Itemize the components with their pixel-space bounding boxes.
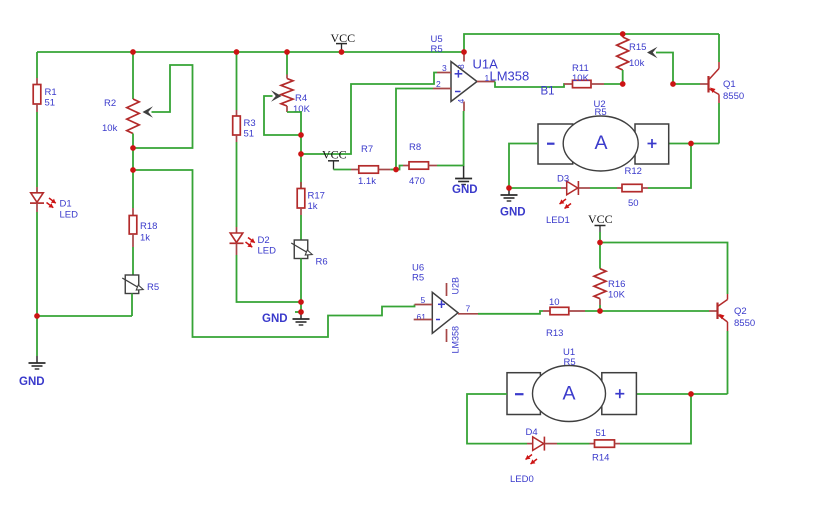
label R1 ref bbox=[45, 87, 57, 98]
wire Q1 collector bbox=[718, 103, 720, 144]
op-amp U2B pin6 stub bbox=[414, 319, 433, 321]
op-amp U1A bbox=[451, 62, 477, 102]
resistor R3 bbox=[233, 110, 241, 142]
label R16 value 10K bbox=[608, 290, 626, 301]
junction node rail-R4 bbox=[284, 49, 290, 55]
wire R2 bottom bbox=[132, 134, 134, 149]
label U2 plus bbox=[648, 139, 657, 148]
wire D1 to GND junction bbox=[36, 212, 38, 316]
ammeter U2 terminals bbox=[538, 124, 669, 164]
svg-text:10k: 10k bbox=[102, 123, 118, 134]
wire rail to R4 bbox=[286, 52, 288, 79]
label U6 bbox=[412, 263, 424, 274]
svg-text:VCC: VCC bbox=[322, 148, 347, 162]
wire VCC to R16 junction bbox=[599, 232, 601, 243]
svg-text:61: 61 bbox=[417, 312, 427, 322]
op-amp U2B pin5 stub bbox=[415, 304, 433, 306]
label D1 value LED bbox=[60, 210, 79, 221]
svg-text:50: 50 bbox=[628, 198, 639, 209]
resistor R11 bbox=[564, 80, 604, 87]
svg-text:Q2: Q2 bbox=[734, 306, 747, 317]
svg-text:R4: R4 bbox=[295, 93, 307, 104]
ground symbol opamp bbox=[455, 166, 472, 185]
wire R2 bottom to lower junction bbox=[132, 148, 134, 170]
svg-text:R8: R8 bbox=[409, 142, 421, 153]
label R15 value 10k bbox=[629, 58, 645, 69]
wire junction to right drop bbox=[133, 170, 415, 337]
wire junction to R17 bbox=[300, 154, 302, 188]
svg-text:1k: 1k bbox=[308, 201, 318, 212]
svg-text:3: 3 bbox=[442, 63, 447, 73]
transistor Q2 bbox=[709, 294, 728, 331]
R4 wiper arrow bbox=[271, 90, 282, 102]
label D3 ref bbox=[557, 174, 569, 185]
svg-text:D4: D4 bbox=[526, 427, 538, 438]
wire gnd to D3 bbox=[509, 187, 561, 189]
label R4 ref bbox=[295, 93, 307, 104]
label R5 ref left bbox=[147, 282, 159, 293]
wire D2 to mid ground bbox=[237, 255, 302, 302]
junction node VCC-R16 bbox=[597, 240, 603, 246]
wire R18 column bbox=[132, 170, 134, 208]
wire opamp output B1 bbox=[495, 82, 565, 88]
label R14 value 51 bbox=[596, 428, 607, 439]
label pin 61 bbox=[417, 312, 427, 322]
LED D1 arrows bbox=[47, 198, 56, 208]
trimmer R6 bbox=[291, 240, 312, 259]
svg-text:R7: R7 bbox=[361, 144, 373, 155]
label LM358 rotated bbox=[451, 326, 461, 354]
wire mid ground segment bbox=[300, 302, 302, 312]
junction node R16-R13 bbox=[597, 308, 603, 314]
label R18 value 1k bbox=[140, 233, 150, 244]
svg-text:B1: B1 bbox=[541, 86, 555, 98]
label U2B rotated bbox=[451, 277, 461, 295]
label R7 value 1.1k bbox=[358, 176, 376, 187]
wire R1 to D1 bbox=[36, 112, 38, 187]
label net B1 bbox=[541, 86, 555, 98]
svg-text:D3: D3 bbox=[557, 174, 569, 185]
label Q2 ref bbox=[734, 306, 747, 317]
wire R14 to plus node bbox=[620, 394, 691, 444]
wire Q1 emitter bbox=[718, 34, 720, 62]
label R8 value 470 bbox=[409, 176, 425, 187]
junction node R2 bottom bbox=[130, 145, 136, 151]
junction node mid-ground upper bbox=[298, 299, 304, 305]
junction node D1-R5 bottom bbox=[34, 313, 40, 319]
resistor R17 bbox=[297, 182, 305, 215]
wire Q2 collector bbox=[727, 331, 729, 394]
wire rail up to top-right rail bbox=[464, 34, 719, 52]
svg-text:4: 4 bbox=[456, 99, 466, 104]
svg-text:R2: R2 bbox=[104, 98, 116, 109]
label LM358 U1A bbox=[490, 69, 530, 84]
resistor R12 bbox=[617, 184, 648, 191]
label GND left bbox=[19, 376, 45, 388]
power symbol VCC top bbox=[336, 44, 347, 52]
wire D4 to R14 bbox=[557, 443, 590, 445]
junction node opamp pin8 bbox=[461, 49, 467, 55]
label D2 ref bbox=[258, 235, 270, 246]
label R11 value 10K bbox=[572, 73, 590, 84]
svg-text:LM358: LM358 bbox=[451, 326, 461, 354]
svg-text:LED: LED bbox=[258, 246, 277, 257]
svg-text:R5: R5 bbox=[412, 273, 424, 284]
label R5 of U6 bbox=[412, 273, 424, 284]
wire U1 minus loop bbox=[467, 394, 527, 444]
label pin 7 bbox=[466, 304, 471, 314]
label R18 ref bbox=[140, 221, 157, 232]
svg-text:A: A bbox=[562, 383, 575, 405]
svg-text:10: 10 bbox=[549, 297, 560, 308]
op-amp U2B pin8 stub bbox=[446, 283, 448, 296]
label U1 A bbox=[562, 383, 575, 405]
power symbol VCC mid-left bbox=[328, 161, 339, 170]
label Q1 value 8550 bbox=[723, 91, 744, 102]
svg-text:8550: 8550 bbox=[734, 318, 755, 329]
label U1A bbox=[473, 57, 499, 72]
label GND meter bbox=[500, 207, 526, 219]
label U2 A bbox=[594, 132, 607, 154]
wire R8 to gnd corner bbox=[437, 111, 464, 166]
LED D4 arrows bbox=[526, 455, 538, 465]
label R6 ref bbox=[316, 257, 328, 268]
wire opamp inverting bbox=[396, 89, 433, 170]
svg-text:R17: R17 bbox=[308, 191, 325, 202]
label pin 2 bbox=[436, 79, 441, 89]
label R15 ref bbox=[629, 42, 646, 53]
svg-text:51: 51 bbox=[596, 428, 607, 439]
label Q1 ref bbox=[723, 79, 736, 90]
potentiometer R15 bbox=[617, 37, 629, 70]
junction node R4 bottom bbox=[298, 132, 304, 138]
ammeter U1 body bbox=[533, 366, 606, 422]
label R4 value 10K bbox=[293, 104, 311, 115]
wire Q2 to ammeter U1 plus bbox=[636, 393, 727, 395]
resistor R1 bbox=[33, 78, 41, 112]
svg-text:R5: R5 bbox=[564, 357, 576, 368]
wire R15 top bbox=[622, 34, 624, 37]
wire pin7 to R13 bbox=[478, 311, 543, 314]
R2 wiper arrow bbox=[143, 106, 154, 118]
junction node R18 top bbox=[130, 167, 136, 173]
label R14 ref bbox=[592, 453, 609, 464]
label D4 value LED0 bbox=[510, 474, 534, 485]
wire mid ground stub bbox=[295, 311, 301, 313]
wire top VCC rail bbox=[37, 51, 464, 53]
label R16 ref bbox=[608, 279, 625, 290]
svg-text:GND: GND bbox=[452, 184, 478, 196]
label VCC top bbox=[331, 31, 356, 45]
wire R15 wiper loop bbox=[656, 53, 673, 85]
wire R15 bottom bbox=[622, 70, 624, 84]
svg-text:R14: R14 bbox=[592, 453, 609, 464]
resistor R8 bbox=[403, 162, 437, 169]
ammeter U2 body bbox=[563, 116, 638, 171]
wire R5 to bottom rail bbox=[131, 294, 133, 317]
svg-text:LED: LED bbox=[60, 210, 79, 221]
wire R2 wiper loop bbox=[133, 65, 193, 148]
svg-text:10k: 10k bbox=[629, 58, 645, 69]
wire D3 to R12 bbox=[590, 187, 617, 189]
LED D2 bbox=[230, 227, 244, 255]
svg-text:R18: R18 bbox=[140, 221, 157, 232]
op-amp U1A pin 3 stub bbox=[437, 72, 451, 74]
label pin 8 bbox=[456, 64, 466, 69]
label R3 ref bbox=[244, 118, 256, 129]
junction node R15 wiper bbox=[670, 81, 676, 87]
label D1 ref bbox=[60, 199, 72, 210]
wire bottom-left horizontal bbox=[37, 315, 132, 317]
svg-text:5: 5 bbox=[421, 295, 426, 305]
op-amp U2B pin7 stub bbox=[458, 313, 478, 315]
junction node opamp+ tap bbox=[298, 151, 304, 157]
svg-text:7: 7 bbox=[466, 304, 471, 314]
label U2 R5 bbox=[595, 107, 607, 118]
svg-text:GND: GND bbox=[262, 313, 288, 325]
label D2 value LED bbox=[258, 246, 277, 257]
wire Q1 to ammeter plus bbox=[669, 143, 719, 145]
LED D3 bbox=[561, 181, 590, 195]
junction node ammeter plus bbox=[688, 141, 694, 147]
svg-text:GND: GND bbox=[500, 207, 526, 219]
wire to Q1 base bbox=[673, 83, 700, 85]
svg-text:GND: GND bbox=[19, 376, 45, 388]
wire R6 to mid ground bbox=[300, 259, 302, 303]
label Q2 value 8550 bbox=[734, 318, 755, 329]
transistor Q1 bbox=[700, 62, 719, 103]
wire R4 wiper loop bbox=[264, 96, 301, 135]
svg-text:LED1: LED1 bbox=[546, 215, 570, 226]
svg-text:1.1k: 1.1k bbox=[358, 176, 376, 187]
wire to left ground bbox=[36, 316, 38, 356]
power symbol VCC mid bbox=[595, 226, 606, 233]
wire junction to R8 bbox=[396, 166, 403, 170]
junction node R15 bottom bbox=[620, 81, 626, 87]
wire R4 bottom bbox=[287, 106, 301, 135]
wire rail to R2 bbox=[132, 52, 134, 99]
op-amp U1A pin 8 bbox=[463, 52, 465, 62]
wire VCC to R7 bbox=[334, 169, 352, 171]
svg-text:U2B: U2B bbox=[451, 277, 461, 295]
svg-text:R5: R5 bbox=[147, 282, 159, 293]
LED D3 arrows bbox=[560, 199, 572, 209]
label U1 ref bbox=[563, 347, 575, 358]
label R13 ref bbox=[546, 328, 563, 339]
label R12 value 50 bbox=[628, 198, 639, 209]
svg-text:R13: R13 bbox=[546, 328, 563, 339]
wire rail to R3 bbox=[236, 52, 238, 110]
label VCC mid bbox=[588, 212, 613, 226]
svg-text:10K: 10K bbox=[572, 73, 590, 84]
svg-text:Q1: Q1 bbox=[723, 79, 736, 90]
resistor R18 bbox=[129, 208, 137, 247]
label U2 ref bbox=[594, 99, 606, 110]
label R2 value 10k bbox=[102, 123, 118, 134]
svg-text:470: 470 bbox=[409, 176, 425, 187]
op-amp U1A pin 1 stub bbox=[477, 81, 495, 83]
wire R12 to plus node bbox=[648, 144, 691, 189]
svg-text:R1: R1 bbox=[45, 87, 57, 98]
trimmer R5 bbox=[122, 275, 143, 294]
svg-text:R15: R15 bbox=[629, 42, 646, 53]
label U1 plus bbox=[615, 389, 624, 398]
svg-text:1k: 1k bbox=[140, 233, 150, 244]
label U1 minus bbox=[515, 393, 524, 395]
label pin 1 bbox=[485, 73, 490, 83]
label D4 ref bbox=[526, 427, 538, 438]
label GND opamp bbox=[452, 184, 478, 196]
svg-text:R3: R3 bbox=[244, 118, 256, 129]
label U5 bbox=[431, 34, 443, 45]
wire R16 bottom bbox=[599, 299, 601, 311]
junction node rail-VCC bbox=[339, 49, 345, 55]
wire U2 minus bbox=[509, 144, 538, 189]
wire R7 to junction bbox=[390, 169, 396, 171]
wire left branch top bbox=[36, 52, 38, 78]
LED D2 arrows bbox=[246, 238, 255, 248]
wire R18 to R5 bbox=[132, 247, 134, 275]
resistor R14 bbox=[590, 440, 621, 447]
svg-text:2: 2 bbox=[436, 79, 441, 89]
svg-text:VCC: VCC bbox=[588, 212, 613, 226]
wire R3 to D2 bbox=[236, 142, 238, 227]
op-amp U2B bbox=[432, 292, 458, 333]
op-amp U2B pin4 stub bbox=[446, 329, 448, 342]
label U2 minus bbox=[547, 143, 555, 145]
svg-text:LM358: LM358 bbox=[490, 69, 530, 84]
wire VCC rail to Q2 emitter bbox=[600, 243, 728, 295]
label R8 ref bbox=[409, 142, 421, 153]
label R12 ref bbox=[625, 166, 642, 177]
ammeter U1 terminals bbox=[507, 373, 636, 415]
label U1 R5 bbox=[564, 357, 576, 368]
svg-text:51: 51 bbox=[45, 98, 56, 109]
wire R16 top bbox=[599, 243, 601, 269]
label R3 value 51 bbox=[244, 129, 255, 140]
svg-text:8550: 8550 bbox=[723, 91, 744, 102]
label VCC mid-left bbox=[322, 148, 347, 162]
op-amp U1A pin 2 stub bbox=[433, 88, 451, 90]
svg-text:R5: R5 bbox=[431, 44, 443, 55]
junction node rail-R2 bbox=[130, 49, 136, 55]
resistor R13 bbox=[543, 307, 585, 314]
junction node meter ground bbox=[506, 185, 512, 191]
potentiometer R2 bbox=[127, 99, 139, 134]
svg-text:D2: D2 bbox=[258, 235, 270, 246]
svg-text:A: A bbox=[594, 132, 607, 154]
label pin 3 bbox=[442, 63, 447, 73]
svg-text:10K: 10K bbox=[608, 290, 626, 301]
LED D1 bbox=[30, 187, 44, 212]
label R7 ref bbox=[361, 144, 373, 155]
wire R11 to R15 junction bbox=[604, 83, 623, 85]
label R17 value 1k bbox=[308, 201, 318, 212]
svg-text:LED0: LED0 bbox=[510, 474, 534, 485]
svg-text:R6: R6 bbox=[316, 257, 328, 268]
svg-text:R5: R5 bbox=[595, 107, 607, 118]
op-amp U1A pin 4 bbox=[463, 102, 465, 112]
svg-text:R16: R16 bbox=[608, 279, 625, 290]
R15 wiper arrow bbox=[647, 47, 658, 59]
wire R17 to R6 bbox=[300, 215, 302, 240]
junction node top-right rail R15 bbox=[620, 31, 626, 37]
svg-text:VCC: VCC bbox=[331, 31, 356, 45]
label R1 value 51 bbox=[45, 98, 56, 109]
label R2 ref bbox=[104, 98, 116, 109]
label pin 4 bbox=[456, 99, 466, 104]
label R11 ref bbox=[572, 63, 589, 74]
svg-text:51: 51 bbox=[244, 129, 255, 140]
resistor R7 bbox=[351, 166, 390, 173]
LED D4 bbox=[527, 437, 557, 451]
wire R13 to Q2 base bbox=[585, 310, 709, 312]
junction node rail-R3 bbox=[234, 49, 240, 55]
wire R4 junction down bbox=[300, 135, 302, 154]
label GND middle bbox=[262, 313, 288, 325]
junction node U1 plus bbox=[688, 391, 694, 397]
potentiometer R4 bbox=[281, 79, 293, 107]
ground symbol meter bbox=[501, 188, 518, 201]
wire to opamp noninverting bbox=[301, 73, 437, 155]
label R13 value 10 bbox=[549, 297, 560, 308]
svg-text:D1: D1 bbox=[60, 199, 72, 210]
ground symbol middle bbox=[293, 312, 310, 325]
junction node R7-R8-pin2 bbox=[393, 167, 399, 173]
label D3 value LED1 bbox=[546, 215, 570, 226]
label R5 of U5 bbox=[431, 44, 443, 55]
label pin 5 bbox=[421, 295, 426, 305]
potentiometer R16 bbox=[594, 269, 606, 299]
svg-text:R12: R12 bbox=[625, 166, 642, 177]
label R17 ref bbox=[308, 191, 325, 202]
junction node mid-ground lower bbox=[298, 309, 304, 315]
ground symbol left bbox=[29, 356, 46, 369]
